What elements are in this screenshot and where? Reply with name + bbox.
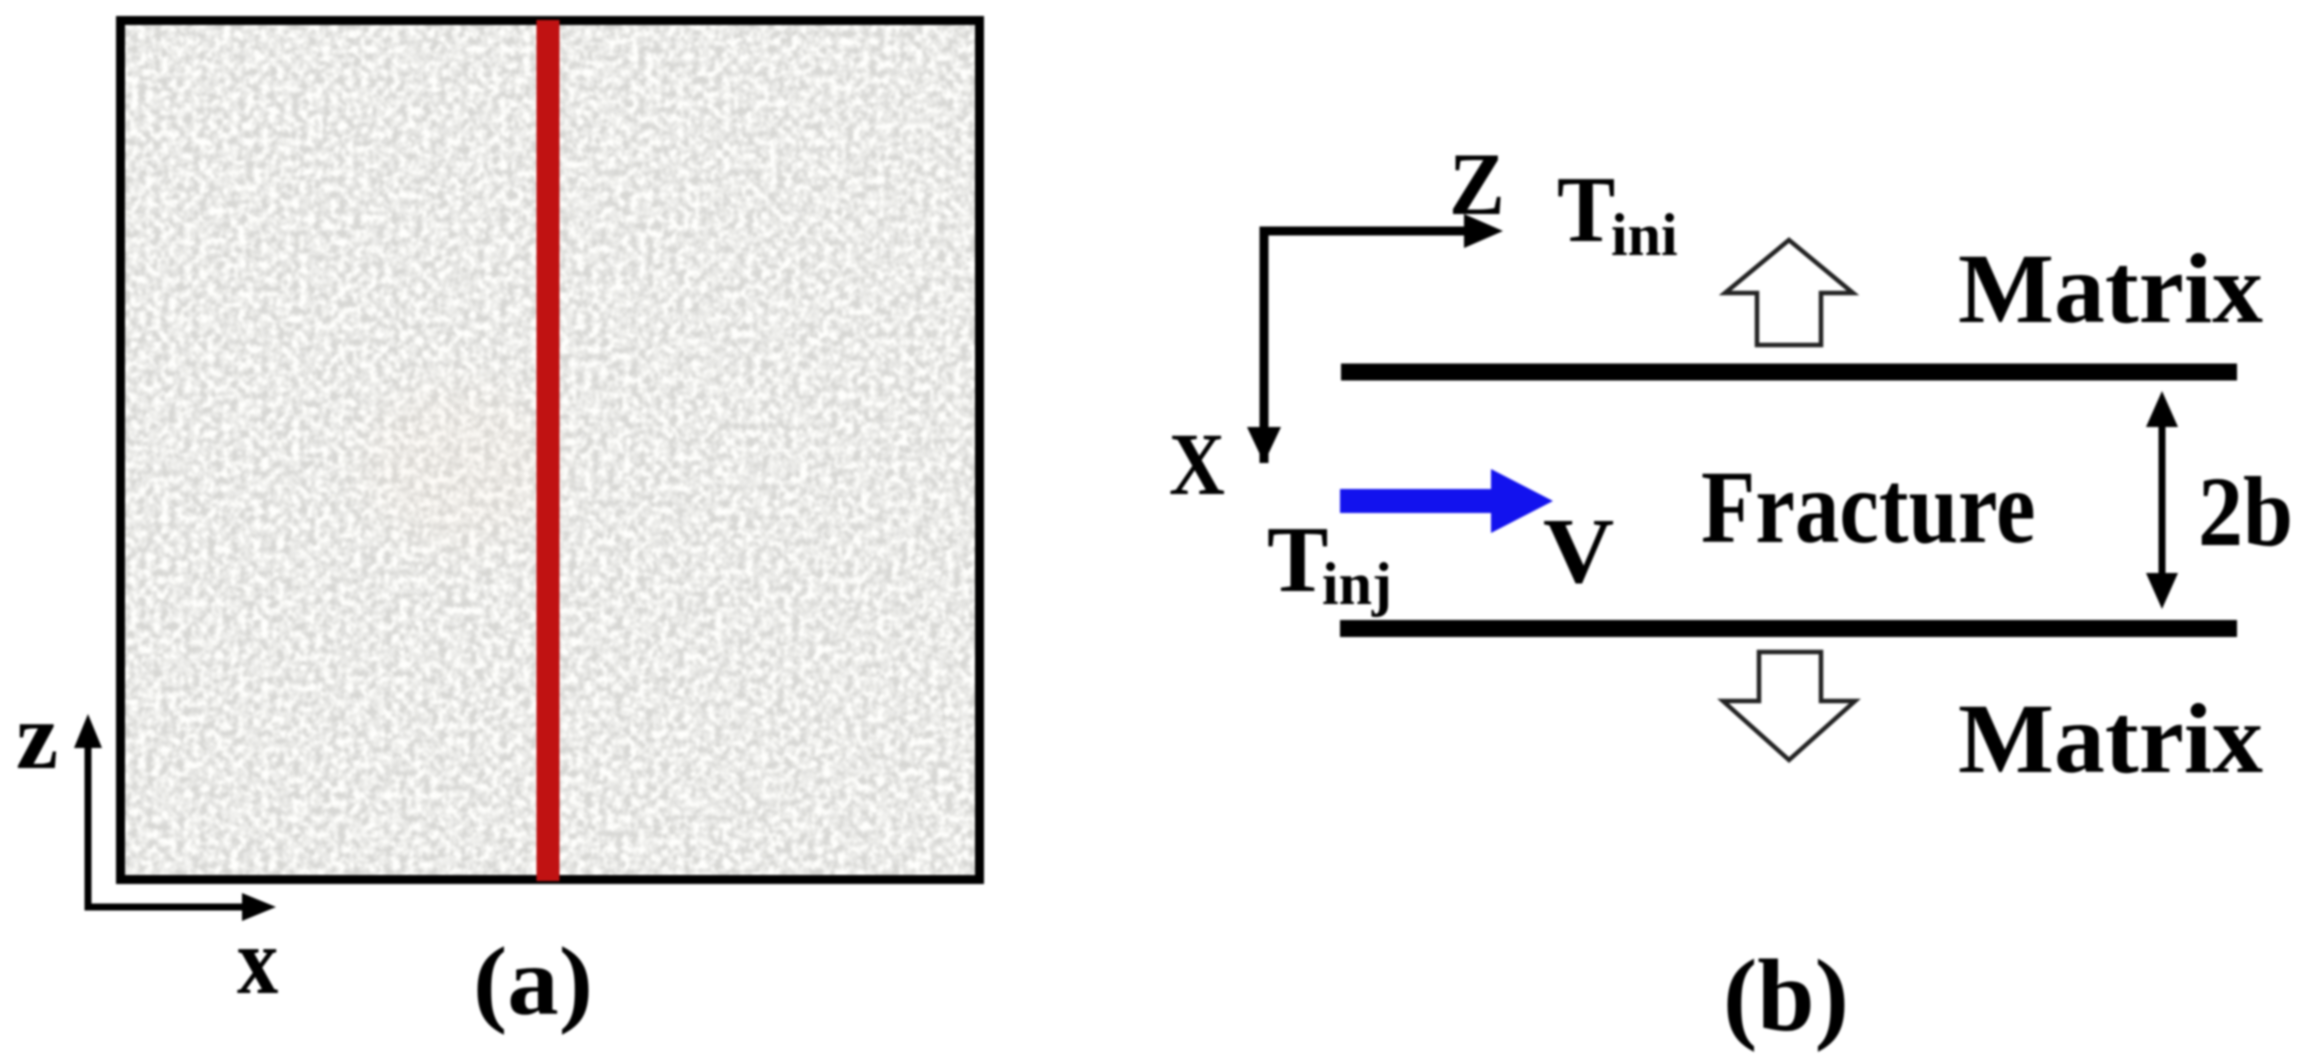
svg-text:inj: inj: [1322, 551, 1392, 617]
x axis line (a): [85, 904, 243, 911]
z axis arrowhead (a): [74, 714, 102, 748]
svg-text:T: T: [1557, 157, 1615, 262]
red fracture line in block (a): [537, 20, 560, 881]
svg-text:x: x: [237, 910, 279, 1015]
top fracture wall line: [1341, 364, 2237, 381]
x axis arrowhead (a): [242, 893, 276, 921]
svg-text:(b): (b): [1723, 939, 1849, 1053]
svg-text:X: X: [1169, 416, 1225, 514]
X axis arrowhead (b): [1247, 427, 1281, 463]
svg-text:V: V: [1543, 500, 1614, 603]
matrix block (a) square border: [121, 21, 980, 880]
2b dimension arrow top head: [2146, 391, 2178, 427]
hollow down arrow from bottom wall: [1723, 652, 1855, 760]
2b dimension arrow shaft: [2159, 420, 2166, 580]
svg-text:(a): (a): [473, 926, 593, 1035]
svg-text:z: z: [16, 683, 58, 789]
hollow up arrow to top matrix: [1725, 240, 1853, 345]
Z axis arrowhead (b): [1464, 214, 1503, 248]
svg-text:Matrix: Matrix: [1958, 233, 2263, 344]
svg-text:Matrix: Matrix: [1958, 683, 2263, 794]
svg-text:T: T: [1267, 508, 1328, 612]
Z axis line (b): [1264, 231, 1464, 463]
svg-text:Z: Z: [1449, 135, 1505, 234]
svg-text:ini: ini: [1611, 202, 1678, 268]
2b dimension arrow bottom head: [2146, 573, 2178, 609]
matrix block (a) speckled texture fill: [124, 24, 976, 875]
bottom fracture wall line: [1340, 620, 2237, 637]
svg-text:2b: 2b: [2198, 456, 2293, 567]
blue velocity arrow: [1340, 469, 1553, 533]
faint warm blotch on texture: [365, 385, 555, 545]
svg-text:Fracture: Fracture: [1701, 450, 2035, 565]
z axis line (a): [85, 748, 92, 907]
